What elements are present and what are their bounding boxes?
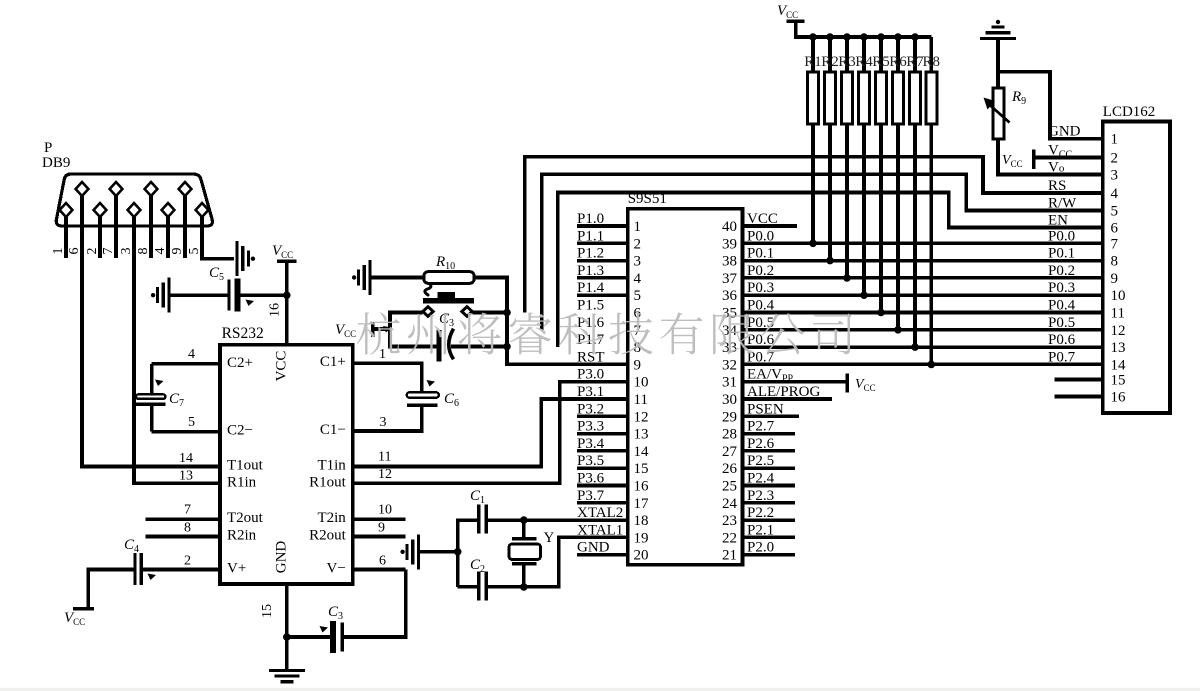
wire Vcc to LCD pin2 — [1035, 156, 1102, 160]
svg-text:P0.6: P0.6 — [747, 332, 775, 348]
svg-text:T1out: T1out — [227, 458, 264, 474]
svg-text:25: 25 — [722, 479, 737, 495]
wire C3 to RST net — [451, 345, 507, 349]
svg-text:9: 9 — [1111, 271, 1119, 287]
svg-text:14: 14 — [179, 451, 193, 466]
svg-text:P2.4: P2.4 — [747, 471, 775, 487]
wire bus to R3 — [845, 37, 849, 72]
wire RS232 pin8 R2in stub — [146, 535, 220, 539]
svg-text:P3.1: P3.1 — [577, 384, 604, 400]
svg-text:P0.5: P0.5 — [747, 315, 774, 331]
wire ground to C5 — [171, 293, 228, 297]
junction P0.0/R1 — [809, 240, 817, 248]
wire R4 to P0.3 — [862, 124, 866, 295]
svg-text:P3.2: P3.2 — [577, 401, 604, 417]
svg-text:2: 2 — [184, 554, 191, 569]
wire RS232 pin9 R2out stub — [353, 535, 406, 539]
ground at C5 — [167, 278, 170, 313]
wire C2 to XTAL1 — [488, 537, 628, 587]
svg-text:R2out: R2out — [309, 528, 347, 544]
junction P0.4/R5 — [877, 309, 885, 317]
svg-text:37: 37 — [722, 271, 738, 287]
svg-text:V−: V− — [327, 561, 346, 577]
wire PSEN stub — [743, 414, 799, 418]
wire R9 to LCD Vo pin3 — [998, 139, 1103, 175]
svg-text:3: 3 — [1111, 168, 1119, 184]
capacitor C5 — [227, 280, 230, 311]
wire RS232 pin15 GND to ground — [285, 584, 289, 669]
svg-text:GND: GND — [274, 541, 290, 574]
svg-text:15: 15 — [634, 461, 649, 477]
svg-text:VCC: VCC — [274, 351, 290, 382]
svg-text:31: 31 — [722, 375, 737, 391]
wire S9S51 P3.4 stub — [577, 449, 628, 453]
wire bus to R8 — [929, 37, 933, 72]
wire S9S51 P3.5 stub — [577, 466, 628, 470]
svg-text:RS: RS — [1048, 178, 1066, 194]
wire C1 left leg — [458, 520, 477, 587]
wire Y bottom — [522, 565, 526, 587]
svg-text:12: 12 — [1111, 323, 1126, 339]
svg-text:39: 39 — [722, 236, 737, 252]
wire R5 to P0.4 — [879, 124, 883, 313]
svg-text:T1in: T1in — [317, 458, 346, 474]
wire bus to R4 — [862, 37, 866, 72]
svg-text:11: 11 — [378, 450, 391, 465]
DB9 pin 3 contact — [128, 203, 141, 217]
wire bus to R1 — [811, 37, 815, 72]
svg-text:P0.3: P0.3 — [747, 280, 774, 296]
ground at DB9 pin5 — [235, 241, 238, 276]
wire Vcc bar to node — [374, 327, 390, 331]
wire S9S51 P1.4 stub — [577, 293, 628, 297]
connector P DB9 outline — [56, 174, 212, 226]
svg-text:7: 7 — [101, 248, 116, 255]
svg-text:20: 20 — [634, 548, 649, 564]
wire P2.5 stub — [743, 466, 796, 470]
wire DB9 pin 1 lead — [64, 217, 68, 258]
capacitor C6 — [407, 392, 439, 397]
svg-text:P0.0: P0.0 — [747, 228, 774, 244]
svg-text:21: 21 — [722, 548, 737, 564]
wire DB9 pin 7 lead — [114, 196, 118, 258]
svg-text:9: 9 — [170, 248, 185, 255]
svg-text:6: 6 — [1111, 221, 1119, 237]
power Vcc at C4 — [73, 607, 94, 610]
capacitor C3 (V- filter) — [330, 621, 336, 653]
junction P0.5/R6 — [894, 326, 902, 334]
wire R1 to P0.0 — [811, 124, 815, 244]
wire Y top — [522, 520, 526, 537]
wire RS232 T1in pin11 to P3.1 — [353, 399, 628, 467]
C4 polarity arrow — [148, 574, 157, 581]
svg-text:7: 7 — [184, 503, 191, 518]
svg-text:P1.0: P1.0 — [577, 211, 604, 227]
svg-text:S9S51: S9S51 — [628, 191, 667, 207]
wire DB9 pin 4 lead — [166, 217, 170, 258]
wire ground to LCD GND pin1 — [998, 72, 1103, 139]
svg-text:R8: R8 — [923, 54, 941, 70]
wire C2 left — [458, 585, 477, 589]
svg-text:15: 15 — [1111, 373, 1126, 389]
wire bus to R2 — [828, 37, 832, 72]
ground at RS232 pin15 — [269, 669, 305, 672]
svg-text:DB9: DB9 — [42, 155, 70, 171]
svg-text:R2: R2 — [821, 54, 839, 70]
svg-text:5: 5 — [634, 288, 642, 304]
svg-text:T2in: T2in — [317, 510, 346, 526]
wire P1.7 to LCD EN — [558, 193, 1103, 348]
svg-text:14: 14 — [634, 444, 650, 460]
wire P2.2 stub — [743, 518, 796, 522]
junction XTAL2/Y — [520, 516, 528, 524]
svg-text:P0.6: P0.6 — [1048, 332, 1076, 348]
svg-text:LCD162: LCD162 — [1103, 104, 1156, 120]
wire ground to R9 — [996, 40, 1000, 89]
C6 polarity arrow — [427, 380, 436, 387]
svg-text:19: 19 — [634, 530, 649, 546]
svg-text:R1in: R1in — [227, 474, 257, 490]
svg-text:2: 2 — [634, 236, 642, 252]
svg-text:12: 12 — [634, 409, 649, 425]
svg-text:5: 5 — [187, 248, 202, 255]
svg-text:R5: R5 — [872, 54, 890, 70]
svg-text:16: 16 — [634, 479, 650, 495]
wire R8 to P0.7 — [929, 124, 933, 365]
wire P2.7 stub — [743, 432, 796, 436]
svg-text:GND: GND — [577, 540, 610, 556]
wire ground to crystal net — [420, 550, 458, 554]
svg-text:8: 8 — [1111, 254, 1119, 270]
resistor R10 body — [424, 272, 474, 284]
svg-text:R/W: R/W — [1048, 196, 1077, 212]
svg-text:GND: GND — [1048, 124, 1081, 140]
wire C1 to XTAL2 — [488, 518, 628, 522]
svg-text:26: 26 — [722, 461, 738, 477]
svg-text:R7: R7 — [906, 54, 924, 70]
svg-text:1: 1 — [634, 219, 642, 235]
svg-text:22: 22 — [722, 530, 737, 546]
wire ground to R10 — [372, 276, 425, 280]
junction bus/R5 — [877, 33, 885, 41]
svg-text:38: 38 — [722, 254, 737, 270]
svg-text:Vo: Vo — [1048, 160, 1065, 176]
capacitor C3 (reset) — [436, 330, 441, 362]
junction GND/C3 — [283, 633, 291, 641]
wire P2.3 stub — [743, 501, 796, 505]
resistor R8 body — [926, 72, 937, 124]
svg-text:15: 15 — [260, 604, 275, 618]
resistor R5 body — [876, 72, 887, 124]
svg-text:36: 36 — [722, 288, 738, 304]
wire RS232 pin5 C2- — [152, 430, 220, 434]
C5 polarity arrow — [246, 300, 255, 307]
junction bus/R7 — [911, 33, 919, 41]
wire RS232 R1out pin12 to P3.0 — [353, 382, 628, 484]
wire P1.6 to LCD R/W — [542, 174, 1103, 330]
junction bus/R4 — [860, 33, 868, 41]
svg-text:C1+: C1+ — [320, 354, 346, 370]
svg-text:1: 1 — [1111, 132, 1119, 148]
svg-text:R1: R1 — [804, 54, 822, 70]
DB9 pin 1 contact — [60, 203, 73, 217]
wire P2.6 stub — [743, 449, 796, 453]
svg-text:ALE/PROG: ALE/PROG — [747, 384, 821, 400]
wire DB9 pin6 to RS232 T1out — [82, 258, 220, 467]
ground at R10 — [368, 260, 371, 295]
wire S9S51 P0.7 to LCD — [743, 363, 1103, 367]
svg-text:8: 8 — [184, 521, 191, 536]
resistor R6 body — [893, 72, 904, 124]
svg-text:P0.3: P0.3 — [1048, 280, 1075, 296]
wire S9S51 P3.3 stub — [577, 432, 628, 436]
junction P0.6/R7 — [911, 343, 919, 351]
svg-text:P0.1: P0.1 — [1048, 246, 1075, 262]
svg-text:R6: R6 — [889, 54, 907, 70]
ground at R9 — [996, 20, 1000, 24]
svg-text:P2.2: P2.2 — [747, 505, 774, 521]
svg-text:10: 10 — [1111, 288, 1126, 304]
potentiometer R9 body — [993, 88, 1004, 139]
DB9 pin 2 contact — [94, 203, 107, 217]
svg-text:16: 16 — [268, 303, 283, 317]
svg-text:EN: EN — [1048, 213, 1068, 229]
junction ground/C1/C2 — [454, 548, 462, 556]
svg-text:P3.7: P3.7 — [577, 488, 605, 504]
power Vcc at EA/Vpp — [846, 373, 849, 392]
svg-text:13: 13 — [179, 469, 193, 484]
junction XTAL1/Y — [520, 583, 528, 591]
junction bus/R3 — [843, 33, 851, 41]
wire button left contact down — [390, 313, 423, 330]
svg-text:10: 10 — [634, 375, 649, 391]
svg-text:1: 1 — [51, 248, 66, 255]
R10 sketch curl — [425, 284, 431, 296]
wire DB9 pin 9 lead — [183, 196, 187, 258]
wire P2.0 stub — [743, 553, 796, 557]
svg-text:P2.5: P2.5 — [747, 453, 774, 469]
svg-text:5: 5 — [188, 415, 195, 430]
wire DB9 pin 2 lead — [98, 217, 102, 258]
wire S9S51 P3.6 stub — [577, 484, 628, 488]
wire S9S51 P0.1 to LCD — [743, 259, 1103, 263]
microcontroller U2 S9S51 body — [628, 209, 743, 565]
svg-text:P3.4: P3.4 — [577, 436, 605, 452]
svg-text:P1.5: P1.5 — [577, 298, 604, 314]
wire C4 to Vcc — [88, 570, 133, 607]
wire DB9 pin3 to RS232 R1in — [134, 258, 220, 483]
svg-text:27: 27 — [722, 444, 738, 460]
wire S9S51 P3.7 stub — [577, 501, 628, 505]
svg-text:1: 1 — [379, 347, 386, 362]
svg-text:4: 4 — [188, 347, 195, 362]
wire DB9 pin5 to ground — [202, 256, 234, 259]
wire R10 to RST pin9 — [474, 278, 628, 365]
wire RS232 pin7 T2out stub — [146, 517, 220, 521]
svg-text:P3.5: P3.5 — [577, 453, 604, 469]
junction P0.7/R8 — [928, 361, 936, 369]
svg-text:9: 9 — [634, 357, 642, 373]
svg-text:P2.6: P2.6 — [747, 436, 775, 452]
pushbutton S1 (reset) — [438, 292, 455, 298]
svg-text:P0.1: P0.1 — [747, 246, 774, 262]
R9 wiper arrow — [988, 103, 1010, 123]
svg-text:P2.0: P2.0 — [747, 540, 774, 556]
DB9 pin 9 contact — [179, 182, 192, 196]
junction P0.1/R2 — [826, 257, 834, 265]
svg-text:6: 6 — [379, 554, 386, 569]
wire button right contact to RST net — [472, 311, 507, 315]
svg-text:P0.7: P0.7 — [1048, 349, 1076, 365]
wire S9S51 P0.6 to LCD — [743, 345, 1103, 349]
svg-text:8: 8 — [136, 248, 151, 255]
svg-text:R3: R3 — [838, 54, 856, 70]
svg-text:32: 32 — [722, 357, 737, 373]
svg-text:R2in: R2in — [227, 528, 257, 544]
junction C5/Vcc/pin16 — [283, 291, 291, 299]
svg-text:R1out: R1out — [309, 474, 347, 490]
junction P0.2/R3 — [843, 274, 851, 282]
wire C6 to RS232 pin3 C1- — [353, 407, 422, 431]
svg-text:P0.0: P0.0 — [1048, 228, 1075, 244]
wire RS232 pin1 C1+ to C6 — [353, 363, 422, 392]
svg-text:4: 4 — [634, 271, 642, 287]
reset Vcc arrow — [383, 326, 392, 333]
svg-text:P: P — [44, 140, 52, 156]
svg-text:18: 18 — [634, 513, 649, 529]
svg-text:13: 13 — [1111, 340, 1126, 356]
DB9 pin 5 contact — [196, 203, 209, 217]
junction bus/R2 — [826, 33, 834, 41]
resistor R2 body — [825, 72, 836, 124]
svg-text:28: 28 — [722, 427, 737, 443]
wire LCD pin16 stub — [1055, 395, 1103, 399]
wire P2.1 stub — [743, 536, 796, 540]
wire RS232 pin4 C2+ — [152, 362, 220, 366]
junction button/RST net — [503, 309, 511, 317]
svg-text:24: 24 — [722, 496, 738, 512]
wire S9S51 P1.3 stub — [577, 276, 628, 280]
svg-text:3: 3 — [119, 248, 134, 255]
wire R2 to P0.1 — [828, 124, 832, 261]
wire bus to R6 — [896, 37, 900, 72]
op-amp U1 RS232 (MAX232) body — [220, 345, 353, 584]
svg-text:P2.3: P2.3 — [747, 488, 774, 504]
svg-text:30: 30 — [722, 392, 737, 408]
resistor R7 body — [910, 72, 921, 124]
svg-text:6: 6 — [67, 248, 82, 255]
wire RS232 pin6 V- — [353, 568, 406, 572]
wire S9S51 P0.5 to LCD — [743, 328, 1103, 332]
wire bus to R5 — [879, 37, 883, 72]
svg-text:P0.2: P0.2 — [1048, 263, 1075, 279]
capacitor C2 — [477, 572, 480, 601]
wire Vcc bus — [796, 23, 931, 37]
svg-text:P1.1: P1.1 — [577, 228, 604, 244]
wire S9S51 P0.2 to LCD — [743, 276, 1103, 280]
wire pin4 to C7 — [150, 364, 154, 395]
svg-text:17: 17 — [634, 496, 650, 512]
svg-text:T2out: T2out — [227, 510, 264, 526]
svg-text:2: 2 — [1111, 151, 1119, 167]
svg-text:P1.3: P1.3 — [577, 263, 604, 279]
svg-text:C2+: C2+ — [227, 355, 253, 371]
svg-text:4: 4 — [153, 248, 168, 255]
wire R3 to P0.2 — [845, 124, 849, 278]
capacitor C4 — [133, 553, 136, 585]
svg-text:11: 11 — [634, 392, 648, 408]
svg-text:12: 12 — [378, 467, 392, 482]
wire DB9 pin 5 lead — [200, 217, 204, 258]
scan artifact band at bottom edge — [0, 688, 1200, 691]
svg-text:11: 11 — [1111, 306, 1125, 322]
ground at crystal — [417, 534, 420, 569]
wire C7 to pin5 — [150, 406, 154, 431]
resistor R3 body — [842, 72, 853, 124]
DB9 pin 7 contact — [110, 182, 123, 196]
svg-text:7: 7 — [1111, 236, 1119, 252]
C3 polarity arrow — [320, 626, 329, 633]
svg-text:3: 3 — [634, 254, 642, 270]
svg-text:29: 29 — [722, 409, 737, 425]
svg-text:40: 40 — [722, 219, 737, 235]
svg-text:RST: RST — [577, 349, 605, 365]
svg-text:VCC: VCC — [747, 211, 778, 227]
svg-text:C1−: C1− — [320, 422, 346, 438]
junction bus/R6 — [894, 33, 902, 41]
svg-text:P0.5: P0.5 — [1048, 315, 1075, 331]
wire Vcc node to C3 reset cap — [390, 329, 436, 347]
wire DB9 pin 3 lead — [132, 217, 136, 258]
resistor R4 body — [859, 72, 870, 124]
svg-text:P2.7: P2.7 — [747, 419, 775, 435]
svg-text:9: 9 — [378, 521, 385, 536]
wire C3 to V- — [344, 570, 406, 638]
wire R7 to P0.6 — [913, 124, 917, 347]
svg-text:23: 23 — [722, 513, 737, 529]
svg-text:3: 3 — [380, 415, 387, 430]
svg-text:V+: V+ — [227, 561, 246, 577]
wire RS232 pin10 T2in stub — [353, 517, 406, 521]
watermark text — [357, 312, 852, 354]
svg-text:2: 2 — [85, 248, 100, 255]
junction bus/R1 — [809, 33, 817, 41]
wire DB9 pin 8 lead — [149, 196, 153, 258]
junction P0.3/R4 — [860, 291, 868, 299]
wire GND node to C3 — [287, 635, 330, 639]
wire S9S51 GND stub — [577, 553, 628, 557]
wire P2.4 stub — [743, 484, 796, 488]
C7 polarity arrow — [155, 380, 164, 387]
wire S9S51 P0.3 to LCD — [743, 293, 1103, 297]
svg-text:Y: Y — [544, 530, 555, 546]
svg-text:P2.1: P2.1 — [747, 522, 774, 538]
svg-text:13: 13 — [634, 427, 649, 443]
wire Vcc to RS232 pin16 — [285, 263, 289, 345]
svg-text:4: 4 — [1111, 186, 1119, 202]
svg-text:P1.6: P1.6 — [577, 315, 605, 331]
wire LCD pin15 stub — [1055, 378, 1103, 382]
svg-text:R4: R4 — [855, 54, 873, 70]
svg-text:5: 5 — [1111, 204, 1119, 220]
svg-text:P3.6: P3.6 — [577, 471, 605, 487]
DB9 pin 8 contact — [145, 182, 158, 196]
wire P1.5 to LCD RS — [525, 157, 1103, 313]
display connector LCD162 body — [1103, 122, 1170, 413]
svg-text:RS232: RS232 — [222, 325, 264, 342]
DB9 pin 6 contact — [76, 182, 89, 196]
wire S9S51 VCC stub — [743, 224, 798, 228]
